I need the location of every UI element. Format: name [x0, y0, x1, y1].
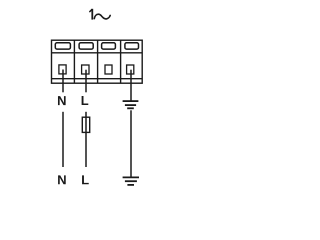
terminal block divider 2-3 [97, 40, 99, 83]
terminal block X1 outer body [52, 40, 143, 83]
wire N lower segment [62, 112, 64, 167]
ground symbol at bottom [123, 177, 139, 185]
wire N upper segment [62, 70, 64, 93]
wire PE lower segment [130, 110, 132, 177]
terminal block divider 3-4 [120, 40, 122, 83]
label N lower [58, 175, 66, 184]
terminal block divider 1-2 [73, 40, 75, 83]
wire L lower segment [85, 112, 87, 167]
wire PE upper segment [130, 70, 132, 101]
clamp square terminal 3 [105, 65, 112, 74]
clamp square terminal 2 [82, 65, 89, 74]
clamp square terminal 4 [127, 65, 134, 74]
screw slot terminal 2 [79, 43, 93, 49]
label N upper [58, 96, 66, 105]
terminal block lower rail line [52, 78, 143, 80]
terminal block upper separator line [52, 52, 143, 54]
fuse F1 on wire L [82, 117, 89, 132]
AC supply label 1~ [89, 9, 110, 20]
ground symbol at terminal 4 [123, 101, 139, 108]
clamp square terminal 1 [59, 65, 66, 74]
wire L upper segment [85, 70, 87, 93]
screw slot terminal 4 [125, 43, 139, 49]
screw slot terminal 3 [102, 43, 116, 49]
screw slot terminal 1 [55, 43, 70, 49]
label L lower [82, 175, 89, 184]
label L upper [82, 96, 89, 105]
